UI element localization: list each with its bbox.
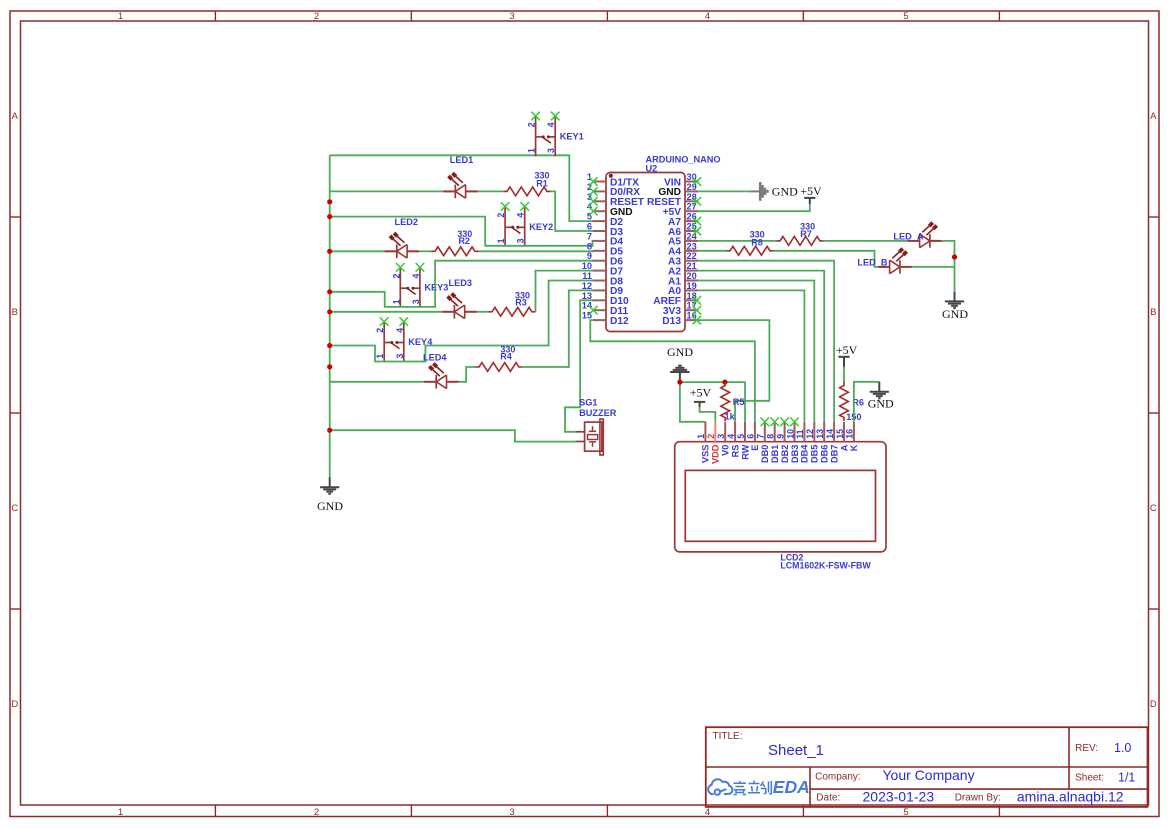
svg-text:KEY3: KEY3 [424, 283, 448, 293]
svg-text:+5V: +5V [690, 385, 712, 399]
svg-text:13: 13 [815, 429, 825, 439]
LED D2 LED2 [385, 233, 419, 258]
title block dividers [706, 727, 1148, 807]
svg-text:14: 14 [825, 429, 835, 439]
svg-text:5: 5 [903, 807, 908, 818]
svg-text:DB2: DB2 [780, 445, 790, 463]
wire GND to LCD VSS [680, 382, 706, 422]
U2 left pins 1-15 stubs [593, 182, 606, 321]
switch KEY3 [391, 263, 448, 308]
svg-text:16: 16 [845, 429, 855, 439]
svg-text:2: 2 [375, 328, 385, 333]
svg-text:9: 9 [775, 434, 785, 439]
svg-text:2: 2 [496, 213, 506, 218]
U2 left pin numbers [582, 172, 593, 321]
resistor R3 330 [489, 307, 536, 316]
svg-text:4: 4 [546, 122, 556, 127]
svg-text:KEY2: KEY2 [529, 222, 553, 232]
wire LED2 to R2 [419, 250, 432, 252]
svg-text:LED2: LED2 [395, 217, 419, 227]
wire R8 to LED_B anode [774, 251, 878, 267]
resistor R1 330 [504, 187, 551, 196]
EasyEDA JLC logo cloud icon [708, 779, 732, 794]
svg-text:14: 14 [582, 301, 593, 311]
wire R1 to U2 pin 6 D3 [551, 191, 595, 231]
switch KEY1 [527, 112, 584, 157]
U2 right pins 30-16 stubs [685, 182, 698, 321]
LCD LCD2 body outer [675, 442, 886, 552]
svg-text:2: 2 [527, 122, 537, 127]
wire rail to LED2 anode [330, 250, 386, 252]
switch KEY2 [496, 202, 553, 247]
svg-text:1: 1 [118, 11, 123, 22]
svg-text:12: 12 [582, 281, 592, 291]
svg-text:R7: R7 [800, 229, 812, 239]
svg-text:3: 3 [509, 807, 514, 818]
svg-text:LCM1602K-FSW-FBW: LCM1602K-FSW-FBW [780, 560, 871, 570]
svg-text:R5: R5 [733, 397, 745, 407]
svg-text:1: 1 [375, 354, 385, 359]
junction dots on GND rail [327, 199, 332, 433]
resistor R5 1k vertical [721, 382, 730, 421]
svg-text:B: B [12, 307, 18, 318]
svg-text:R3: R3 [515, 298, 527, 308]
wire LCD K to GND [854, 382, 879, 422]
svg-text:D13: D13 [662, 316, 681, 327]
svg-text:K: K [849, 444, 859, 451]
svg-text:Your Company: Your Company [883, 767, 975, 783]
svg-text:4: 4 [726, 434, 736, 439]
svg-text:LED1: LED1 [450, 155, 474, 165]
svg-text:DB6: DB6 [820, 445, 830, 463]
svg-text:2: 2 [706, 434, 716, 439]
svg-text:GND: GND [942, 307, 968, 321]
svg-text:10: 10 [785, 429, 795, 439]
svg-text:20: 20 [687, 271, 697, 281]
wire U2 pin 24 A5 to R7 [698, 240, 776, 242]
power +5V flag at LCD VDD [694, 402, 705, 407]
LCD pin numbers 1-16 [696, 429, 855, 439]
LED D3 LED3 [442, 294, 476, 319]
switch KEY4 [375, 317, 433, 362]
svg-text:Drawn By:: Drawn By: [955, 793, 1001, 804]
ground GND power flag sideways at U2 pin 29 [750, 182, 767, 201]
wire GND rail to LCD RW [680, 382, 745, 422]
svg-text:D: D [1150, 699, 1157, 710]
resistor R8 330 [727, 246, 774, 255]
svg-text:SG1: SG1 [579, 397, 597, 407]
svg-text:D12: D12 [610, 316, 629, 327]
wire KEY1 to U2 pin 5 D2 [330, 155, 594, 221]
svg-text:4: 4 [411, 274, 421, 279]
svg-text:C: C [1150, 503, 1157, 514]
svg-text:1: 1 [696, 434, 706, 439]
svg-text:7: 7 [756, 434, 766, 439]
border column labels top [118, 11, 909, 22]
svg-text:4: 4 [516, 213, 526, 218]
svg-text:E: E [750, 445, 760, 451]
svg-text:B: B [1150, 307, 1156, 318]
wire R3 to U2 pin 10 D7 [536, 271, 595, 312]
svg-text:+5V: +5V [800, 184, 822, 198]
LED LED_B [878, 249, 912, 274]
svg-text:1.0: 1.0 [1114, 741, 1131, 755]
svg-text:GND: GND [868, 397, 894, 411]
svg-text:Sheet_1: Sheet_1 [768, 742, 824, 759]
svg-text:3: 3 [509, 11, 514, 22]
wire U2 pin 23 A4 to R8 [698, 250, 726, 252]
wire LED4 to R4 [458, 367, 475, 382]
border column labels bottom [118, 807, 909, 818]
svg-text:DB1: DB1 [770, 445, 780, 463]
wire U2 pin 21 A2 to LCD DB6 [698, 271, 824, 422]
wire U2 pin 22 A3 to LCD DB7 [698, 261, 834, 422]
svg-text:3: 3 [395, 354, 405, 359]
wire LED1 to R1 [477, 190, 503, 192]
svg-text:RW: RW [740, 444, 750, 459]
svg-text:2: 2 [314, 807, 319, 818]
wire GND rail vertical [329, 155, 331, 477]
ground GND rail bottom [320, 477, 339, 494]
wire rail to LED4 anode [330, 381, 425, 383]
svg-text:BUZZER: BUZZER [579, 408, 617, 418]
resistor R4 330 [476, 363, 523, 372]
wire R4 to U2 pin 12 D9 [523, 290, 595, 367]
junction dot GND-VSS [677, 380, 682, 385]
resistor R7 330 [777, 237, 824, 246]
svg-text:REV:: REV: [1075, 743, 1098, 754]
svg-text:Sheet:: Sheet: [1075, 773, 1104, 784]
buzzer SG1 [575, 419, 603, 455]
svg-text:TITLE:: TITLE: [713, 731, 743, 742]
svg-text:7: 7 [587, 231, 592, 241]
wire LED3 to R3 [477, 311, 489, 313]
svg-text:4: 4 [705, 807, 710, 818]
svg-text:3: 3 [411, 299, 421, 304]
ground GND flag below LED_A LED_B [945, 292, 964, 308]
svg-text:3: 3 [516, 238, 526, 243]
svg-text:D: D [11, 699, 18, 710]
wire LED_B cathode to GND vertical [912, 266, 955, 268]
svg-text:23: 23 [687, 241, 697, 251]
resistor R2 330 [432, 247, 479, 256]
U2 no-connect X marks left pins 1,2,3,4,14 [589, 177, 598, 314]
svg-text:A: A [12, 111, 19, 122]
LED D4 LED4 [424, 364, 458, 389]
LCD display window inner rect [685, 470, 875, 541]
svg-text:DB5: DB5 [810, 445, 820, 463]
wire rail to KEY4 and U2 pin 11 D8 [330, 281, 594, 362]
wire rail to LED3 anode [330, 311, 443, 313]
svg-text:1k: 1k [725, 411, 736, 421]
svg-text:LED3: LED3 [449, 278, 473, 288]
svg-text:1: 1 [527, 148, 537, 153]
wire U2 pin 27 to +5V flag [698, 204, 810, 211]
svg-text:6: 6 [746, 434, 756, 439]
wire U2 pin 13 D10 to buzzer pin 1 [565, 300, 594, 432]
svg-text:LED4: LED4 [423, 353, 447, 363]
wire R7 to LED_A anode [824, 240, 908, 242]
svg-text:V0: V0 [721, 445, 731, 456]
wire U2 pin 15 D12 to LCD E [590, 320, 755, 422]
wire +5V to R6 [843, 367, 845, 383]
power +5V flag at R6 [838, 357, 849, 367]
svg-text:C: C [11, 503, 18, 514]
svg-text:VDD: VDD [711, 444, 721, 464]
border row labels right [1150, 111, 1157, 710]
svg-text:LED_B: LED_B [857, 258, 887, 268]
svg-text:A: A [1150, 111, 1157, 122]
svg-text:Company:: Company: [815, 771, 861, 782]
svg-text:1/1: 1/1 [1118, 771, 1135, 785]
svg-text:2023-01-23: 2023-01-23 [863, 789, 935, 805]
svg-text:1: 1 [118, 807, 123, 818]
svg-text:LED_A: LED_A [893, 232, 923, 242]
svg-text:DB3: DB3 [790, 445, 800, 463]
junction dot GND-R5 [722, 380, 727, 385]
svg-text:R4: R4 [500, 352, 512, 362]
LED LED_A [908, 223, 942, 248]
svg-text:3: 3 [716, 434, 726, 439]
border row labels left [11, 111, 18, 710]
svg-text:GND: GND [772, 184, 798, 198]
svg-text:KEY1: KEY1 [560, 131, 584, 141]
svg-text:11: 11 [795, 429, 805, 438]
svg-text:13: 13 [582, 291, 592, 301]
svg-text:U2: U2 [646, 163, 658, 173]
svg-text:4: 4 [395, 328, 405, 333]
svg-text:R2: R2 [458, 236, 470, 246]
LCD pin names [701, 444, 860, 464]
LCD no-connect X marks pins 7-10 [761, 418, 799, 427]
svg-text:1: 1 [496, 238, 506, 243]
ground GND flag inverted above LCD [670, 366, 689, 382]
wire +5V to LCD VDD [700, 407, 716, 422]
svg-text:19: 19 [687, 281, 697, 291]
svg-text:15: 15 [835, 429, 845, 439]
U2 no-connect X marks right pins 30,28,26,25,18,17,16 [693, 177, 702, 324]
svg-text:GND: GND [667, 345, 693, 359]
svg-text:VSS: VSS [701, 445, 711, 463]
U2 pin-1 marker dot [609, 174, 613, 178]
svg-text:4: 4 [705, 11, 710, 22]
svg-text:8: 8 [766, 434, 776, 439]
wire rail to LED1 anode [330, 190, 444, 192]
wire U2 pin 29 to GND flag [698, 190, 750, 192]
svg-text:22: 22 [687, 251, 697, 261]
title block outline [706, 727, 1148, 807]
wire rail to KEY2 [330, 217, 595, 246]
svg-text:6: 6 [587, 222, 592, 232]
U2 right pin numbers [687, 172, 698, 321]
svg-text:2: 2 [391, 274, 401, 279]
svg-text:12: 12 [805, 429, 815, 439]
wire LED_A cathode down to GND [942, 241, 955, 292]
svg-text:3: 3 [546, 148, 556, 153]
svg-text:R1: R1 [536, 179, 548, 189]
U2 left pin names [610, 177, 645, 327]
svg-text:EDA: EDA [773, 777, 810, 797]
IC U2 ARDUINO_NANO body [606, 173, 685, 332]
resistor R6 150 vertical [840, 382, 849, 421]
wire U2 pin 19 A0 to LCD DB4 [698, 290, 804, 421]
svg-text:RS: RS [730, 445, 740, 458]
wire R2 to U2 pin 8 D5 [479, 250, 595, 252]
LED D1 LED1 [443, 173, 477, 198]
svg-text:11: 11 [582, 271, 592, 281]
svg-text:5: 5 [736, 434, 746, 439]
LCD pin leads 1-16 [705, 422, 854, 442]
svg-text:+5V: +5V [836, 343, 858, 357]
junction dot LED_A LED_B GND net [952, 254, 957, 259]
svg-text:9: 9 [587, 251, 592, 261]
svg-text:amina.alnaqbi.12: amina.alnaqbi.12 [1017, 789, 1124, 805]
wire rail to KEY3 and U2 pin 9 D6 [330, 261, 594, 307]
svg-text:2: 2 [314, 11, 319, 22]
svg-text:R8: R8 [751, 238, 763, 248]
svg-text:DB7: DB7 [829, 445, 839, 463]
svg-text:DB4: DB4 [800, 444, 810, 463]
U2 right pin names [647, 177, 682, 327]
svg-text:DB0: DB0 [760, 445, 770, 463]
svg-text:1: 1 [391, 299, 401, 304]
svg-text:21: 21 [687, 261, 697, 271]
svg-text:A: A [839, 444, 849, 451]
svg-text:Date:: Date: [816, 793, 840, 804]
svg-text:GND: GND [317, 499, 343, 513]
ground GND flag right of R6 [870, 382, 889, 399]
EasyEDA JLC logo CJK text and EDA [734, 781, 772, 795]
svg-text:8: 8 [587, 241, 592, 251]
wire U2 pin 20 A1 to LCD DB5 [698, 281, 814, 422]
wire rail to buzzer pin 2 [330, 430, 576, 441]
svg-text:10: 10 [582, 261, 592, 271]
wire U2 pin 16 D13 to LCD RS [698, 320, 769, 422]
svg-text:5: 5 [903, 11, 908, 22]
power +5V flag at U2 pin 27 [804, 198, 815, 204]
